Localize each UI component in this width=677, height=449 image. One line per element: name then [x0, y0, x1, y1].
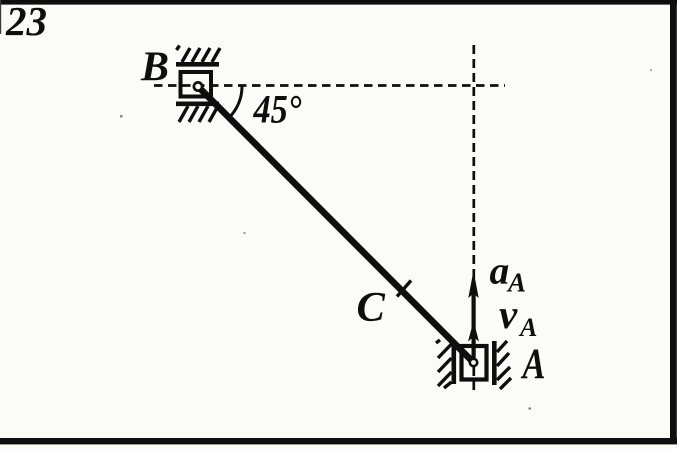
slider A: hatching left of rail [436, 340, 452, 388]
svg-text:a: a [490, 249, 510, 293]
slider B: top rail [176, 62, 219, 67]
tick mark C on rod [397, 281, 411, 297]
border frame bottom [0, 438, 677, 444]
acceleration arrow a_A [468, 271, 478, 363]
border frame top [0, 0, 677, 5]
border frame left (short fading stub) [0, 0, 1, 34]
velocity arrow head v_A [468, 321, 479, 342]
slider B: hatching above rail [177, 46, 221, 63]
svg-text:45°: 45° [253, 87, 302, 132]
svg-text:A: A [518, 313, 537, 342]
pin B [194, 82, 202, 90]
angle arc 45deg at B [229, 87, 242, 118]
slider A: hatching right of rail [497, 341, 511, 389]
svg-text:B: B [140, 45, 169, 91]
svg-text:A: A [520, 341, 545, 388]
slider B: bottom rail [176, 102, 219, 107]
pin A [470, 359, 477, 366]
slider B: hatching below rail [179, 106, 218, 122]
border frame right [670, 0, 677, 444]
slider A: right rail [492, 341, 497, 385]
svg-text:23: 23 [5, 0, 47, 44]
rod AB [198, 87, 474, 363]
horizontal center line through B [154, 84, 505, 87]
vertical center line through A [472, 45, 475, 390]
slider A: box [462, 346, 487, 380]
slider A: left rail [452, 341, 457, 384]
svg-text:C: C [357, 284, 386, 331]
svg-text:v: v [499, 291, 518, 337]
slider B: box [181, 72, 212, 97]
scan speck dots [120, 115, 123, 118]
